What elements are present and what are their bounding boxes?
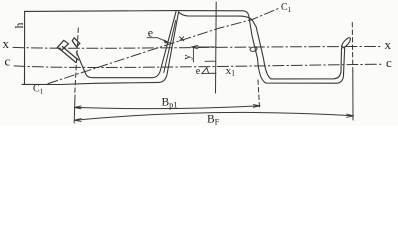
clutch bar double line xyxy=(60,47,79,63)
x mark on diagonal near web xyxy=(180,37,184,41)
center vertical line xyxy=(215,2,218,93)
left B extension: dashed upper part xyxy=(75,28,79,95)
left B extension: solid lower part xyxy=(73,95,76,123)
svg-text:x1: x1 xyxy=(226,65,236,78)
X axis xyxy=(13,47,381,49)
svg-text:Bp1: Bp1 xyxy=(162,97,178,110)
BF right extension solid lower part xyxy=(352,72,354,120)
small ellipse on right-trough left web xyxy=(250,46,258,52)
C axis xyxy=(14,64,381,67)
top line + hat top outer + hat right web outer + right trough outer bottom + right web outer xyxy=(25,11,345,84)
Bp1 dimension line xyxy=(74,106,260,109)
clutch flag (left sheet end hook) xyxy=(57,40,68,50)
clutch second tab xyxy=(72,38,80,47)
svg-text:c: c xyxy=(5,54,11,69)
BF right extension dashed xyxy=(351,23,354,73)
svg-text:e: e xyxy=(196,66,201,77)
BF arrowheads xyxy=(74,119,81,122)
left trough: web from clutch + inner bottom + right web outer(left) line xyxy=(77,12,177,78)
svg-text:c: c xyxy=(386,55,392,70)
svg-text:e: e xyxy=(148,26,153,40)
svg-text:BF: BF xyxy=(207,113,220,126)
svg-text:y: y xyxy=(182,54,193,60)
h-dimension vertical extension line left xyxy=(24,11,26,84)
middle web seam line (overlap) xyxy=(164,21,176,73)
right edge loop (sheet edge curl) xyxy=(340,36,352,49)
BF dimension line xyxy=(74,112,353,120)
svg-text:C1: C1 xyxy=(281,2,292,14)
Bp1 right extension dashed xyxy=(258,80,260,108)
svg-text:h: h xyxy=(14,22,26,28)
y dimension group near center xyxy=(191,47,216,62)
svg-text:x: x xyxy=(3,36,10,51)
svg-text:C1: C1 xyxy=(33,84,44,96)
bottom long line + left trough right web inner(right) line up to top junction xyxy=(22,12,179,85)
bottom-center short line to center axis xyxy=(209,72,216,74)
svg-text:x: x xyxy=(385,37,392,52)
C1 diagonal axis xyxy=(48,8,280,84)
e underline + leader with arrowhead (web thickness callout) xyxy=(147,38,167,42)
hat inner line + right web inner + right trough inner bottom + right web inner xyxy=(179,12,342,79)
Bp1 arrowheads xyxy=(74,106,81,109)
bottom-center triangle mark xyxy=(202,68,209,74)
